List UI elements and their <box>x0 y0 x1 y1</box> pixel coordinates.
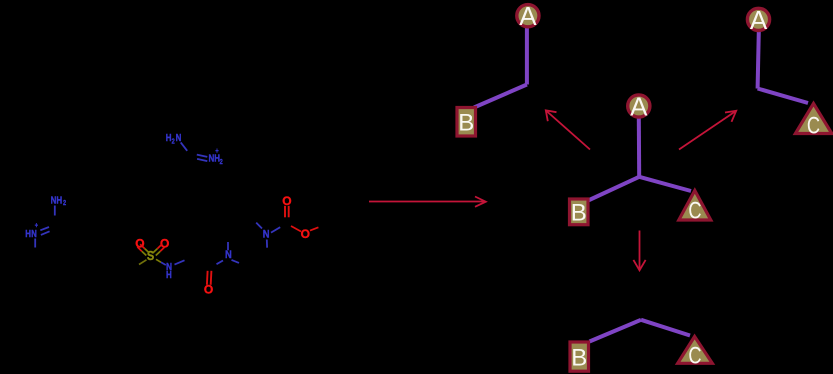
svg-text:B: B <box>571 200 587 227</box>
svg-text:N: N <box>263 229 270 241</box>
arrow to upper-left product <box>546 110 590 149</box>
tree edge vertex to C <box>758 89 808 104</box>
bond H2N to C <box>181 142 188 150</box>
arrow main reaction <box>369 197 486 207</box>
svg-text:N: N <box>225 250 232 262</box>
svg-text:A: A <box>630 92 648 122</box>
bond N-CH3 <box>34 239 36 248</box>
svg-text:O: O <box>160 236 169 250</box>
bond S to N blue half <box>161 262 166 265</box>
node B (bottom tree) <box>570 342 589 371</box>
tree edge vertex to C <box>641 320 690 336</box>
svg-text:C: C <box>807 112 820 139</box>
tree edge A to center vertex <box>637 117 641 177</box>
svg-text:A: A <box>519 1 537 31</box>
double bond C=N+ <box>40 227 49 235</box>
svg-text:O: O <box>301 227 310 241</box>
svg-text:O: O <box>282 194 291 208</box>
node B (left tree) <box>457 108 476 137</box>
atom label NH2+ <box>209 148 224 167</box>
bond C6-N1 bright half <box>227 242 229 250</box>
svg-text:2: 2 <box>63 199 67 207</box>
bond S to aryl <box>139 260 147 265</box>
node A (center tree) <box>628 92 650 122</box>
bond N4 to carbamate C <box>271 227 280 232</box>
atom label H2N (top amidinium) <box>166 132 182 146</box>
node C (bottom tree) <box>678 337 713 370</box>
svg-text:+: + <box>35 222 39 230</box>
svg-text:+: + <box>215 148 219 156</box>
bond N4-C3 bright half <box>266 240 268 248</box>
double bond S=O left <box>137 244 149 255</box>
bond C2-N1 bright half <box>232 260 240 263</box>
svg-text:H: H <box>166 132 172 143</box>
node B (center tree) <box>570 199 589 227</box>
node C (right tree) <box>795 104 831 140</box>
bond NH2 to C <box>54 206 56 216</box>
atom label NH2 (left amidinium) <box>51 195 67 208</box>
node C (center tree) <box>679 191 711 225</box>
node A (right tree) <box>747 5 769 35</box>
svg-text:O: O <box>204 283 213 297</box>
double bond S=O right <box>153 244 165 255</box>
svg-text:A: A <box>750 5 768 35</box>
svg-text:B: B <box>458 110 474 137</box>
svg-text:N: N <box>176 132 182 143</box>
tree edge vertex to B <box>586 177 639 202</box>
tree edge A to vertex <box>525 26 529 85</box>
bond C5-N4 bright half <box>256 223 262 229</box>
bond S to N <box>156 259 161 262</box>
svg-text:C: C <box>688 197 701 224</box>
double bond C=O (glycine) <box>207 271 212 285</box>
bond O to ethyl <box>310 227 318 230</box>
double bond C=NH2+ <box>197 155 208 162</box>
bond C(=O) to N1 bright half <box>217 261 224 265</box>
svg-text:C: C <box>688 342 701 369</box>
svg-text:NH: NH <box>51 195 63 206</box>
svg-text:2: 2 <box>172 138 176 146</box>
double bond C=O (carbamate) <box>285 206 289 218</box>
atom label HN+ <box>25 222 38 239</box>
tree edge B to vertex <box>590 320 642 342</box>
tree edge vertex to B <box>474 85 527 108</box>
node A (left tree) <box>517 1 539 31</box>
svg-text:B: B <box>571 344 587 371</box>
atom label NH (sulfonamide) <box>166 261 172 280</box>
arrow to bottom product <box>633 231 645 271</box>
tree edge vertex to C <box>639 177 691 191</box>
bond C to O ester <box>291 226 301 232</box>
bond N to CH2 <box>175 260 185 264</box>
svg-text:H: H <box>166 269 172 280</box>
tree edge A to vertex <box>758 31 759 89</box>
svg-text:2: 2 <box>220 159 224 167</box>
arrow to upper-right product <box>679 111 736 150</box>
